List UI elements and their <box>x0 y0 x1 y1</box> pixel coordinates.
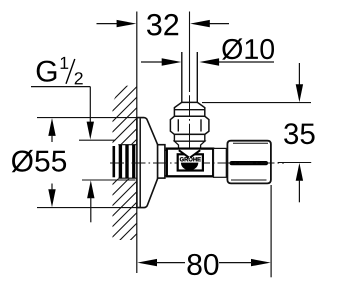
thread G1/2 block <box>112 144 136 178</box>
knob (handle) <box>227 141 271 184</box>
collar <box>165 150 168 175</box>
nut <box>170 116 209 134</box>
rosette (escutcheon) <box>137 118 165 208</box>
V funnel (drawn over plate) <box>179 150 201 158</box>
right neck <box>214 148 227 177</box>
label G 1/2 <box>31 57 136 222</box>
band under nut <box>174 134 204 141</box>
pipe <box>181 52 183 102</box>
dim 80 <box>137 185 271 277</box>
centerline vertical <box>189 12 191 93</box>
wall <box>112 75 138 269</box>
wall face line (also ext line for 32 and 80 dims) <box>136 12 138 274</box>
dim Ø10 <box>141 38 274 65</box>
centerline horizontal <box>110 162 284 164</box>
top fitting: flare cup <box>174 102 204 116</box>
dim 35 <box>202 63 315 202</box>
taper + neck into body <box>174 141 204 148</box>
dim 32 <box>97 14 230 36</box>
valve body <box>167 149 213 177</box>
dim Ø55 <box>12 118 146 208</box>
GROHE logo plate <box>178 154 203 170</box>
